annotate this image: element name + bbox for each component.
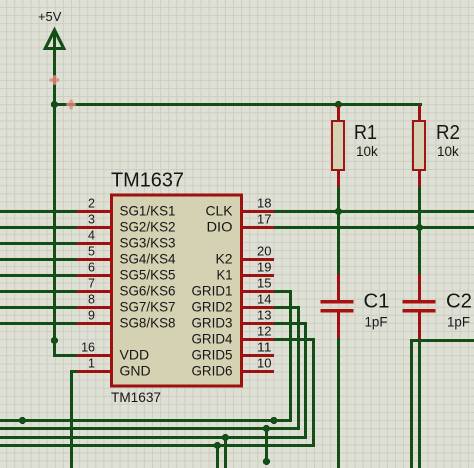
junction bus2 branch end xyxy=(263,458,270,465)
chip U1 TM1637 body xyxy=(112,195,242,386)
pin name SG6/KS6 xyxy=(120,283,176,299)
pin name GRID5 xyxy=(192,347,233,363)
wire GRID1 horizontal from pin xyxy=(273,290,292,293)
wire SG2 left xyxy=(0,226,79,229)
pin 1 number xyxy=(88,357,95,371)
pin name SG5/KS5 xyxy=(120,267,176,283)
pin name SG1/KS1 xyxy=(120,203,176,219)
wire branch down from bus3 xyxy=(224,436,227,468)
pin 12 (GRID4) stub xyxy=(242,338,274,341)
pin 13 number xyxy=(257,309,272,323)
pin 18 number xyxy=(257,197,272,211)
capacitor C1 top lead xyxy=(337,274,340,301)
pin 9 number xyxy=(88,309,95,323)
pin 20 number xyxy=(257,245,272,259)
pin 10 number xyxy=(257,357,272,371)
svg-text:SG5/KS5: SG5/KS5 xyxy=(120,267,176,283)
value C1 1pF xyxy=(365,315,388,330)
svg-text:GRID4: GRID4 xyxy=(192,331,233,347)
pin name SG8/KS8 xyxy=(120,315,176,331)
wire branch down from bus4 xyxy=(216,444,219,468)
resistor R2 body xyxy=(413,121,425,170)
wire C2 down xyxy=(418,339,421,468)
junction bus3 branch xyxy=(222,434,229,441)
label C1 xyxy=(364,291,390,313)
svg-text:13: 13 xyxy=(257,309,272,323)
pin 16 number xyxy=(81,341,95,355)
label R2 xyxy=(436,122,460,144)
resistor R2 bottom lead xyxy=(418,170,421,189)
wire GRID4 vertical xyxy=(312,338,315,447)
svg-text:20: 20 xyxy=(257,245,272,259)
junction on +5V vertical xyxy=(51,337,58,344)
svg-text:5: 5 xyxy=(88,245,95,259)
pin 11 (GRID5) stub xyxy=(242,354,274,357)
svg-text:10k: 10k xyxy=(437,144,459,159)
svg-text:R2: R2 xyxy=(436,122,460,144)
resistor R1 bottom lead xyxy=(337,170,340,189)
wire R2 to DIO and C2 xyxy=(418,187,421,276)
wire +5V horizontal rail xyxy=(53,103,422,106)
svg-text:3: 3 xyxy=(88,213,95,227)
wire GRID1 vertical xyxy=(289,290,292,422)
junction bus4 branch xyxy=(214,442,221,449)
capacitor C1 bottom lead xyxy=(337,312,340,341)
pin name K1 xyxy=(217,267,233,283)
pin name SG2/KS2 xyxy=(120,219,176,235)
wire SG4 left xyxy=(0,258,79,261)
svg-text:17: 17 xyxy=(257,213,272,227)
junction CLK R1 C1 xyxy=(335,208,342,215)
pin 9 (SG8/KS8) stub xyxy=(77,322,111,325)
pin name SG7/KS7 xyxy=(120,299,176,315)
capacitor C1 plates xyxy=(321,300,354,312)
pin name GRID1 xyxy=(192,283,233,299)
pin 7 (SG6/KS6) stub xyxy=(77,290,111,293)
svg-text:16: 16 xyxy=(81,341,95,355)
svg-text:SG4/KS4: SG4/KS4 xyxy=(120,251,176,267)
pin 14 (GRID2) stub xyxy=(242,306,274,309)
svg-text:GRID1: GRID1 xyxy=(192,283,233,299)
junction bus2 branch xyxy=(263,425,270,432)
pin 6 (SG5/KS5) stub xyxy=(77,274,111,277)
wire GRID2 bottom bus xyxy=(0,427,300,430)
pin name GRID4 xyxy=(192,331,233,347)
svg-text:2: 2 xyxy=(88,197,95,211)
power symbol +5V arrow xyxy=(45,30,64,49)
svg-text:SG2/KS2: SG2/KS2 xyxy=(120,219,176,235)
pin 11 number xyxy=(257,341,272,355)
svg-text:9: 9 xyxy=(88,309,95,323)
pin 5 number xyxy=(88,245,95,259)
svg-text:1pF: 1pF xyxy=(447,315,470,330)
label R1 xyxy=(354,122,377,144)
wire GRID3 vertical xyxy=(304,322,307,439)
wire CLK net xyxy=(273,210,474,213)
svg-text:GRID5: GRID5 xyxy=(192,347,233,363)
svg-text:K2: K2 xyxy=(216,251,233,267)
wire GRID3 horizontal from pin xyxy=(273,322,307,325)
svg-text:15: 15 xyxy=(257,277,272,291)
wire VDD feed horizontal xyxy=(53,354,79,357)
svg-text:R1: R1 xyxy=(354,122,377,144)
pin 13 (GRID3) stub xyxy=(242,322,274,325)
svg-text:K1: K1 xyxy=(217,267,233,283)
wire GRID1 bottom bus xyxy=(0,419,292,422)
pin 8 number xyxy=(88,293,95,307)
pin 2 number xyxy=(88,197,95,211)
resistor R1 top lead xyxy=(337,106,340,121)
pin name SG3/KS3 xyxy=(120,235,176,251)
value R1 10k xyxy=(356,144,378,159)
svg-text:18: 18 xyxy=(257,197,272,211)
pin 3 number xyxy=(88,213,95,227)
svg-text:C2: C2 xyxy=(446,291,472,313)
svg-text:+5V: +5V xyxy=(38,10,62,24)
svg-text:C1: C1 xyxy=(364,291,390,313)
svg-text:11: 11 xyxy=(257,341,272,355)
pin 4 number xyxy=(88,229,95,243)
svg-text:19: 19 xyxy=(257,261,272,275)
pin 2 (SG1/KS1) stub xyxy=(77,210,111,213)
svg-text:6: 6 xyxy=(88,261,95,275)
svg-text:7: 7 xyxy=(88,277,95,291)
wire net right horizontal xyxy=(410,339,474,342)
label C2 xyxy=(446,291,472,313)
junction +5V rail R1 xyxy=(335,101,342,108)
value R2 10k xyxy=(437,144,459,159)
capacitor C2 plates xyxy=(403,300,436,312)
pin 17 (DIO) stub xyxy=(242,226,274,229)
chip U1 footer label TM1637 xyxy=(111,390,161,405)
junction DIO R2 C2 xyxy=(416,224,423,231)
capacitor C2 top lead xyxy=(418,274,421,301)
pin 16 (VDD) stub xyxy=(77,354,111,357)
resistor R2 top lead xyxy=(418,105,421,121)
svg-text:VDD: VDD xyxy=(120,347,150,363)
value C2 1pF xyxy=(447,315,470,330)
wire GRID2 horizontal from pin xyxy=(273,306,300,309)
svg-text:GRID6: GRID6 xyxy=(192,363,233,379)
pin name CLK xyxy=(206,203,234,219)
svg-text:8: 8 xyxy=(88,293,95,307)
wire DIO net xyxy=(273,226,474,229)
svg-text:SG7/KS7: SG7/KS7 xyxy=(120,299,176,315)
capacitor C2 bottom lead xyxy=(418,312,421,342)
pin 7 number xyxy=(88,277,95,291)
pin 1 (GND) stub xyxy=(77,370,111,373)
wire GRID2 vertical xyxy=(297,306,300,430)
junction on bus1 left xyxy=(19,417,26,424)
wire GND horizontal xyxy=(70,370,79,373)
resistor R1 body xyxy=(332,121,344,170)
pin 15 (GRID1) stub xyxy=(242,290,274,293)
pin 4 (SG3/KS3) stub xyxy=(77,242,111,245)
svg-text:1: 1 xyxy=(88,357,95,371)
pin 10 (GRID6) stub xyxy=(242,370,274,373)
svg-text:12: 12 xyxy=(257,325,272,339)
wire SG5 left xyxy=(0,274,79,277)
pin name GRID6 xyxy=(192,363,233,379)
wire GRID4 horizontal from pin xyxy=(273,338,315,341)
wire +5V vertical xyxy=(53,31,56,357)
svg-text:1pF: 1pF xyxy=(365,315,388,330)
pin name GRID3 xyxy=(192,315,233,331)
no-connect marker upper xyxy=(50,75,60,85)
pin name GRID2 xyxy=(192,299,233,315)
wire GRID4 bottom bus xyxy=(0,444,315,447)
wire C1 down xyxy=(337,338,340,468)
pin 20 (K2) stub xyxy=(242,258,274,261)
svg-text:4: 4 xyxy=(88,229,95,243)
svg-text:GND: GND xyxy=(120,363,151,379)
svg-text:14: 14 xyxy=(257,293,272,307)
wire SG8 left xyxy=(0,322,79,325)
pin name SG4/KS4 xyxy=(120,251,176,267)
pin 5 (SG4/KS4) stub xyxy=(77,258,111,261)
pin name DIO xyxy=(207,219,233,235)
svg-text:GRID3: GRID3 xyxy=(192,315,233,331)
wire net right vertical xyxy=(410,339,413,468)
pin 18 (CLK) stub xyxy=(242,210,274,213)
wire GRID3 bottom bus xyxy=(0,436,307,439)
no-connect marker on rail xyxy=(66,100,76,110)
wire SG1 left xyxy=(0,210,79,213)
svg-text:CLK: CLK xyxy=(206,203,234,219)
wire R1 to CLK and C1 xyxy=(337,187,340,276)
pin name K2 xyxy=(216,251,233,267)
pin 19 number xyxy=(257,261,272,275)
wire SG3 left xyxy=(0,242,79,245)
pin 14 number xyxy=(257,293,272,307)
svg-text:SG6/KS6: SG6/KS6 xyxy=(120,283,176,299)
svg-text:10k: 10k xyxy=(356,144,378,159)
pin 3 (SG2/KS2) stub xyxy=(77,226,111,229)
wire SG7 left xyxy=(0,306,79,309)
power label +5V xyxy=(38,10,62,24)
junction +5V rail tap xyxy=(51,101,58,108)
chip U1 title TM1637 xyxy=(111,170,184,192)
svg-text:GRID2: GRID2 xyxy=(192,299,233,315)
svg-text:10: 10 xyxy=(257,357,272,371)
pin 8 (SG7/KS7) stub xyxy=(77,306,111,309)
pin 12 number xyxy=(257,325,272,339)
wire branch down from bus2 xyxy=(265,427,268,464)
pin 6 number xyxy=(88,261,95,275)
wire SG6 left xyxy=(0,290,79,293)
pin name GND xyxy=(120,363,151,379)
svg-text:TM1637: TM1637 xyxy=(111,170,184,192)
svg-text:SG8/KS8: SG8/KS8 xyxy=(120,315,176,331)
svg-text:TM1637: TM1637 xyxy=(111,390,161,405)
wire GND vertical xyxy=(70,370,73,468)
junction on bus1 right xyxy=(270,417,277,424)
pin name VDD xyxy=(120,347,150,363)
pin 19 (K1) stub xyxy=(242,274,274,277)
svg-text:DIO: DIO xyxy=(207,219,233,235)
svg-text:SG3/KS3: SG3/KS3 xyxy=(120,235,176,251)
pin 15 number xyxy=(257,277,272,291)
pin 17 number xyxy=(257,213,272,227)
svg-text:SG1/KS1: SG1/KS1 xyxy=(120,203,176,219)
